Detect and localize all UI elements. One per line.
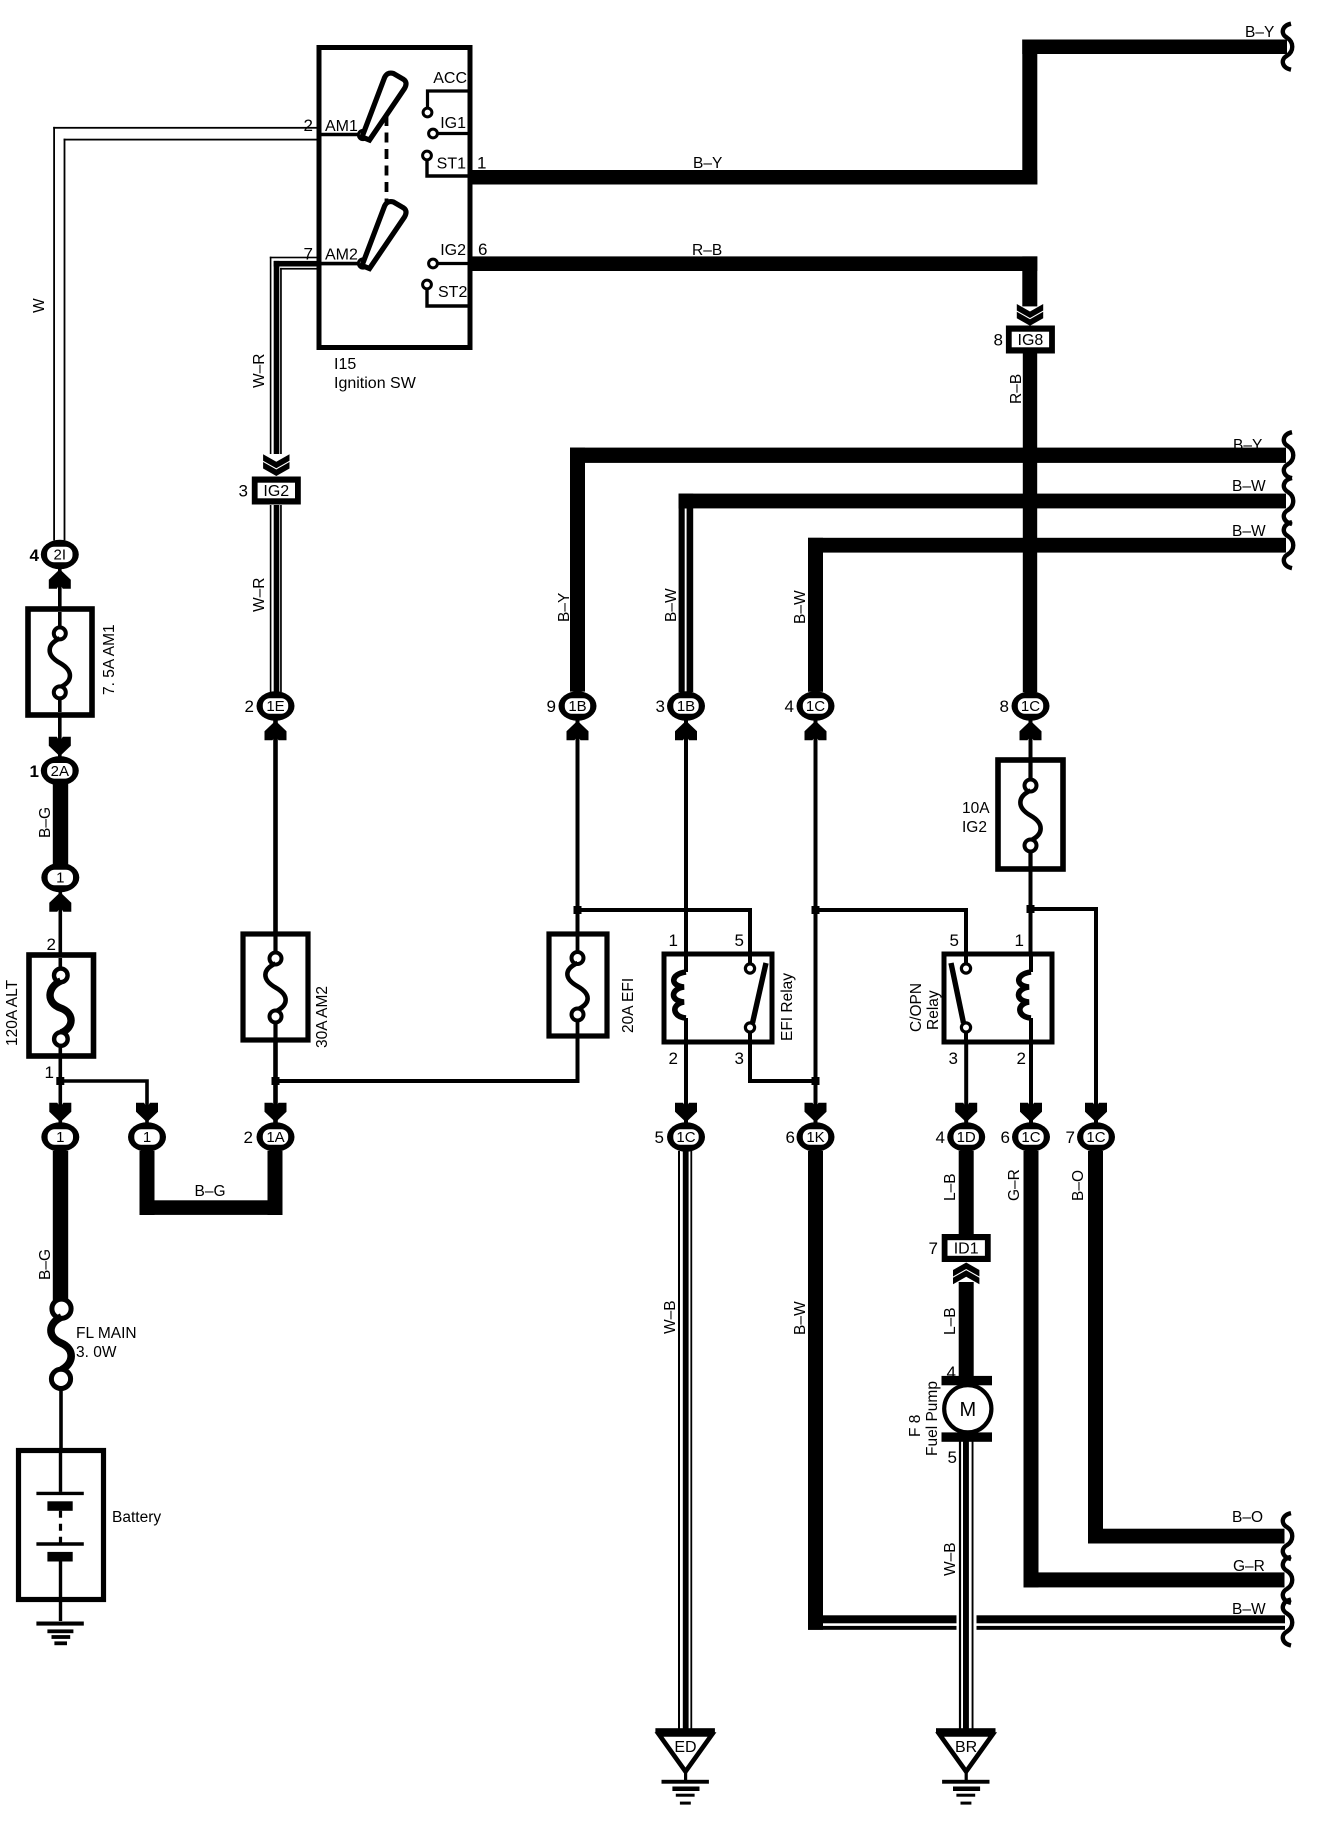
C/OPN relay switch — [964, 954, 968, 964]
svg-text:FL MAIN: FL MAIN — [76, 1325, 137, 1342]
connector 1E pin 2 — [257, 691, 295, 720]
fuse 20A EFI box — [549, 934, 607, 1036]
svg-text:4: 4 — [785, 697, 794, 716]
svg-text:F 8: F 8 — [907, 1415, 924, 1437]
svg-text:2: 2 — [245, 697, 254, 716]
svg-text:120A ALT: 120A ALT — [4, 979, 21, 1046]
svg-text:1B: 1B — [677, 698, 695, 715]
svg-text:2A: 2A — [51, 763, 69, 780]
connector box IG8 pin 8 — [1006, 326, 1055, 354]
wire W-R striped from connector IG2 down to connector 1E — [270, 505, 272, 692]
svg-text:AM1: AM1 — [325, 118, 358, 135]
connector arrow into IG8 box — [1017, 304, 1043, 318]
svg-text:10A: 10A — [962, 800, 990, 817]
wire from connector 1C pin 4 down through junctions to connector 1K — [814, 721, 818, 1123]
svg-text:4: 4 — [947, 1363, 956, 1382]
svg-text:3: 3 — [949, 1049, 958, 1068]
svg-text:W–B: W–B — [942, 1542, 959, 1576]
svg-text:EFI Relay: EFI Relay — [779, 973, 796, 1041]
C/OPN relay coil — [1029, 954, 1033, 972]
connector arrow up into 1B pin 9 — [567, 721, 589, 741]
svg-text:B–Y: B–Y — [556, 593, 573, 622]
connector 1C pin 8 — [1012, 691, 1050, 720]
break symbol wire B-W bottom — [1283, 1600, 1292, 1646]
wire from connector 1 to fuse 120A ALT — [58, 892, 62, 954]
junction node on 1B-9 wire above fuse 20A EFI — [574, 906, 582, 914]
svg-text:1C: 1C — [1021, 1129, 1040, 1146]
svg-text:G–R: G–R — [1006, 1169, 1023, 1201]
svg-text:2I: 2I — [54, 547, 67, 564]
junction node 1 below fuse 120A ALT — [56, 1077, 64, 1085]
connector arrow into ID1 from below — [953, 1270, 979, 1284]
svg-text:B–G: B–G — [194, 1183, 225, 1200]
svg-text:IG2: IG2 — [440, 242, 466, 259]
ignition switch AM1 terminal line — [321, 133, 359, 137]
svg-text:L–B: L–B — [942, 1307, 959, 1335]
svg-text:1: 1 — [669, 931, 678, 950]
svg-text:C/OPN: C/OPN — [908, 983, 925, 1032]
svg-text:B–W: B–W — [792, 1301, 809, 1335]
fuse 7.5A AM1 box — [28, 609, 92, 715]
svg-text:1C: 1C — [676, 1129, 695, 1146]
svg-text:I15: I15 — [334, 356, 356, 373]
svg-text:5: 5 — [655, 1128, 664, 1147]
branch wire from junction to C/OPN relay pin 5 — [816, 910, 967, 964]
connector arrow down into 1K — [805, 1103, 827, 1123]
ignition switch ST2 contact — [423, 280, 432, 289]
svg-text:3. 0W: 3. 0W — [76, 1344, 117, 1361]
connector 1C pin 5 — [667, 1122, 705, 1151]
connector 2I pin 4 — [41, 540, 79, 569]
junction node on 1C-4 wire at relay branch — [812, 906, 820, 914]
svg-text:ID1: ID1 — [954, 1240, 979, 1257]
svg-text:8: 8 — [1000, 697, 1009, 716]
ignition switch ACC contact — [428, 91, 468, 107]
svg-text:ED: ED — [674, 1739, 696, 1756]
heavy wire B-G from right connector 1 down, across, up to connector 1A — [140, 1151, 155, 1215]
wire from connector 1B pin 9 down to junction and fuse 20A EFI — [576, 721, 580, 934]
EFI relay box — [664, 954, 772, 1042]
heavy wire G-R from connector 1C pin 6 down and right to break — [1024, 1151, 1039, 1587]
branch wire from junction right then down to connector 1C pin 7 — [1031, 909, 1097, 1123]
svg-text:BR: BR — [955, 1739, 977, 1756]
ignition switch IG1 contact — [429, 129, 438, 138]
wire W double-line from AM1 pin 2 to connector 2I — [53, 127, 316, 129]
svg-text:B–W: B–W — [792, 590, 809, 624]
wire W-R striped from AM2 pin 7 down to connector IG2 — [270, 257, 317, 259]
wire EFI relay pin 2 to connector 1C pin 5 — [684, 1043, 688, 1123]
branch wire from junction to left connector 1 — [58, 1081, 62, 1123]
break symbol wire B-Y top — [1283, 24, 1292, 70]
EFI relay switch — [748, 954, 752, 964]
wire from fuse 10A IG2 to junction — [1029, 870, 1033, 909]
svg-text:5: 5 — [948, 1448, 957, 1467]
ignition switch AM2 pivot — [358, 259, 367, 268]
svg-text:20A EFI: 20A EFI — [620, 978, 637, 1033]
svg-text:L–B: L–B — [942, 1173, 959, 1201]
connector arrow down into 1D — [955, 1103, 977, 1123]
fuse 120A ALT box — [29, 955, 94, 1056]
wire from fuse 30A AM2 through junction to connector 1A — [273, 1041, 278, 1123]
heavy wire R-B from ignition IG2 to IG8 connector — [472, 256, 1037, 271]
svg-text:5: 5 — [950, 931, 959, 950]
connector arrow down into right connector 1 — [136, 1103, 158, 1123]
svg-text:B–Y: B–Y — [1245, 24, 1274, 41]
svg-text:30A AM2: 30A AM2 — [314, 986, 331, 1048]
wire from connector 1B pin 3 to EFI relay pin 1 coil — [684, 721, 688, 954]
svg-text:3: 3 — [656, 697, 665, 716]
svg-text:IG2: IG2 — [263, 483, 289, 500]
battery internal symbol — [59, 1453, 62, 1492]
svg-text:B–G: B–G — [37, 807, 54, 838]
wire W-B double from connector 1C pin 5 to ground ED — [678, 1151, 680, 1730]
svg-text:5: 5 — [735, 931, 744, 950]
wire from connector 1E to fuse 30A AM2 — [273, 721, 278, 934]
svg-text:1C: 1C — [1021, 698, 1040, 715]
wire from fuse 20A EFI bottom to junction below 30A AM2 — [276, 1037, 578, 1081]
svg-text:R–B: R–B — [1008, 374, 1025, 404]
ground triangle BR — [936, 1728, 996, 1733]
connector arrow up into connector 1 — [49, 892, 71, 912]
svg-text:2: 2 — [1017, 1049, 1026, 1068]
heavy wire L-B from ID1 to fuel pump — [959, 1282, 974, 1377]
svg-text:1B: 1B — [568, 698, 586, 715]
svg-text:B–Y: B–Y — [1233, 437, 1262, 454]
svg-text:ACC: ACC — [433, 70, 467, 87]
svg-text:W–B: W–B — [662, 1300, 679, 1334]
connector 1 upper — [41, 863, 79, 892]
svg-text:B–Y: B–Y — [693, 155, 722, 172]
heavy wire B-W from connector 1K down and right to break — [808, 1151, 823, 1630]
heavy wire R-B from IG8 down to connector 1C pin 8 — [1023, 352, 1037, 692]
svg-text:IG2: IG2 — [962, 819, 987, 836]
svg-text:B–W: B–W — [1232, 478, 1266, 495]
svg-text:ST1: ST1 — [437, 156, 466, 173]
heavy wire B-Y from ignition ST1 to top right break — [472, 170, 1037, 185]
connector arrow down into 1A — [265, 1103, 287, 1123]
wire EFI relay pin 3 to junction on 1K wire — [750, 1031, 816, 1081]
svg-text:6: 6 — [786, 1128, 795, 1147]
svg-text:1D: 1D — [957, 1129, 976, 1146]
EFI relay coil — [684, 954, 688, 972]
svg-text:Battery: Battery — [112, 1509, 161, 1526]
svg-text:G–R: G–R — [1233, 1558, 1265, 1575]
connector arrow up into 1B pin 3 — [675, 721, 697, 741]
break symbol wire B-Y middle — [1284, 432, 1293, 478]
ground triangle ED — [655, 1728, 715, 1733]
connector 1B pin 9 — [559, 691, 597, 720]
connector 1C pin 4 — [797, 691, 835, 720]
fuse 10A IG2 box — [998, 760, 1063, 869]
svg-text:Fuel Pump: Fuel Pump — [924, 1381, 941, 1456]
svg-text:AM2: AM2 — [325, 247, 358, 264]
svg-text:W–R: W–R — [251, 578, 268, 612]
svg-text:ST2: ST2 — [438, 284, 467, 301]
svg-text:2: 2 — [244, 1128, 253, 1147]
fusible link FL MAIN — [52, 1299, 71, 1318]
svg-text:1: 1 — [30, 762, 39, 781]
junction node on 1C-4 wire at EFI relay pin 3 — [812, 1077, 820, 1085]
break symbol wire B-W upper — [1284, 478, 1293, 524]
junction block ID1 — [942, 1234, 991, 1262]
svg-text:B–O: B–O — [1070, 1170, 1087, 1201]
svg-text:IG8: IG8 — [1018, 332, 1044, 349]
svg-text:1: 1 — [477, 154, 486, 173]
fuel pump motor F8 — [942, 1376, 993, 1385]
connector 1B pin 3 — [667, 691, 705, 720]
break symbol wire B-W lower — [1284, 522, 1293, 568]
branch wire from junction right then down to second connector 1 — [60, 1081, 147, 1123]
connector box IG2 pin 3 — [252, 477, 301, 505]
ignition switch AM2 terminal line — [321, 262, 359, 266]
svg-text:3: 3 — [239, 482, 248, 501]
junction node below fuse 30A AM2 — [272, 1077, 280, 1085]
battery box — [19, 1451, 104, 1600]
connector arrow down into 1C pin 6 — [1020, 1103, 1042, 1123]
svg-text:W–R: W–R — [251, 354, 268, 388]
svg-text:2: 2 — [47, 935, 56, 954]
connector arrow down into 1C pin 7 — [1085, 1103, 1107, 1123]
heavy wire B-G from connector 2A to connector 1 — [53, 783, 68, 864]
heavy wire B-W from connector 1B pin 3 up and right to break — [679, 494, 694, 509]
svg-text:Ignition SW: Ignition SW — [334, 375, 417, 392]
connector 1 lower left — [41, 1122, 79, 1151]
wire from FL MAIN to battery — [59, 1388, 63, 1450]
svg-text:9: 9 — [547, 697, 556, 716]
wire from fuse 120A ALT to junction node 1 — [58, 1057, 62, 1081]
svg-text:M: M — [959, 1399, 976, 1421]
ignition switch key lever 1 — [362, 73, 406, 140]
connector 1D pin 4 — [947, 1122, 985, 1151]
svg-text:B–G: B–G — [37, 1249, 54, 1280]
connector 1C pin 7 — [1077, 1122, 1115, 1151]
connector arrow up into 1C pin 8 — [1020, 721, 1042, 741]
ignition switch IG2 contact — [429, 259, 438, 268]
svg-text:7: 7 — [1066, 1128, 1075, 1147]
svg-text:4: 4 — [30, 546, 40, 565]
svg-text:R–B: R–B — [692, 242, 722, 259]
svg-text:6: 6 — [478, 240, 487, 259]
svg-text:7: 7 — [304, 245, 313, 264]
svg-text:7: 7 — [929, 1239, 938, 1258]
wire from connector 1C pin 8 to fuse 10A IG2 — [1029, 721, 1033, 760]
svg-text:1: 1 — [56, 870, 64, 887]
connector 1K pin 6 — [797, 1122, 835, 1151]
svg-text:4: 4 — [936, 1128, 945, 1147]
connector arrow up into 1E — [265, 721, 287, 741]
svg-text:1: 1 — [143, 1129, 151, 1146]
connector arrow into IG2 box — [263, 454, 289, 468]
connector arrow down into 2A — [49, 737, 71, 757]
connector arrow down into left connector 1 — [49, 1103, 71, 1123]
ignition switch key lever 2 — [362, 202, 406, 269]
heavy wire L-B from connector 1D to junction block ID1 — [959, 1151, 974, 1236]
connector 1C pin 6 — [1012, 1122, 1050, 1151]
fuse 30A AM2 box — [243, 934, 308, 1040]
break symbol wire B-O — [1283, 1513, 1292, 1559]
connector 1 lower right — [128, 1122, 166, 1151]
heavy wire B-G from connector 1 down to fusible link FL MAIN — [53, 1151, 68, 1301]
svg-text:1C: 1C — [806, 698, 825, 715]
wire W-B double from fuel pump to ground BR crossing B-W wire — [957, 1614, 977, 1633]
svg-text:3: 3 — [735, 1049, 744, 1068]
connector arrow down into 1C pin 5 — [675, 1103, 697, 1123]
svg-text:B–O: B–O — [1232, 1509, 1263, 1526]
svg-text:8: 8 — [994, 331, 1003, 350]
wire C/OPN relay pin 2 to connector 1C pin 6 — [1029, 1043, 1033, 1123]
ground symbol below battery — [36, 1622, 83, 1626]
svg-text:1: 1 — [1015, 931, 1024, 950]
svg-text:IG1: IG1 — [440, 115, 466, 132]
connector arrow up into 1C pin 4 — [805, 721, 827, 741]
wire from connector 2I to fuse 7.5A AM1 — [58, 569, 62, 608]
svg-text:Relay: Relay — [925, 990, 942, 1030]
svg-text:1C: 1C — [1086, 1129, 1105, 1146]
svg-text:1: 1 — [56, 1129, 64, 1146]
connector arrow up into 2I — [49, 569, 71, 589]
svg-text:7. 5A AM1: 7. 5A AM1 — [101, 624, 118, 695]
svg-text:1E: 1E — [266, 698, 284, 715]
ignition switch I15 box — [319, 48, 470, 348]
svg-text:6: 6 — [1001, 1128, 1010, 1147]
svg-text:B–W: B–W — [1232, 1601, 1266, 1618]
branch wire from junction to EFI relay pin 5 — [578, 910, 751, 964]
heavy wire B-W from connector 1C pin 4 up and right to break — [808, 538, 823, 692]
heavy wire B-Y from connector 1B pin 9 up and right to break — [570, 448, 585, 692]
ignition switch AM1 pivot — [358, 130, 367, 139]
ignition switch ST1 contact — [423, 151, 432, 160]
heavy wire B-O from connector 1C pin 7 down and right to break — [1088, 1151, 1103, 1544]
wire from fuse 7.5A AM1 to connector 2A — [58, 716, 62, 757]
junction node below fuse 10A IG2 — [1027, 905, 1035, 913]
svg-text:1A: 1A — [266, 1129, 284, 1146]
ignition switch lever link dashed line — [385, 116, 389, 206]
svg-text:2: 2 — [304, 116, 313, 135]
svg-text:B–W: B–W — [1232, 523, 1266, 540]
wire C/OPN relay pin 3 to connector 1D — [964, 1043, 968, 1123]
connector 2A pin 1 — [41, 756, 79, 785]
svg-text:B–W: B–W — [663, 588, 680, 622]
svg-text:2: 2 — [669, 1049, 678, 1068]
connector 1A pin 2 — [257, 1122, 295, 1151]
svg-text:W: W — [31, 298, 48, 313]
svg-text:1: 1 — [45, 1063, 54, 1082]
break symbol wire G-R — [1283, 1557, 1292, 1603]
wire from junction to C/OPN relay pin 1 coil — [1029, 909, 1033, 953]
svg-text:1K: 1K — [806, 1129, 824, 1146]
C/OPN relay box — [944, 954, 1052, 1042]
